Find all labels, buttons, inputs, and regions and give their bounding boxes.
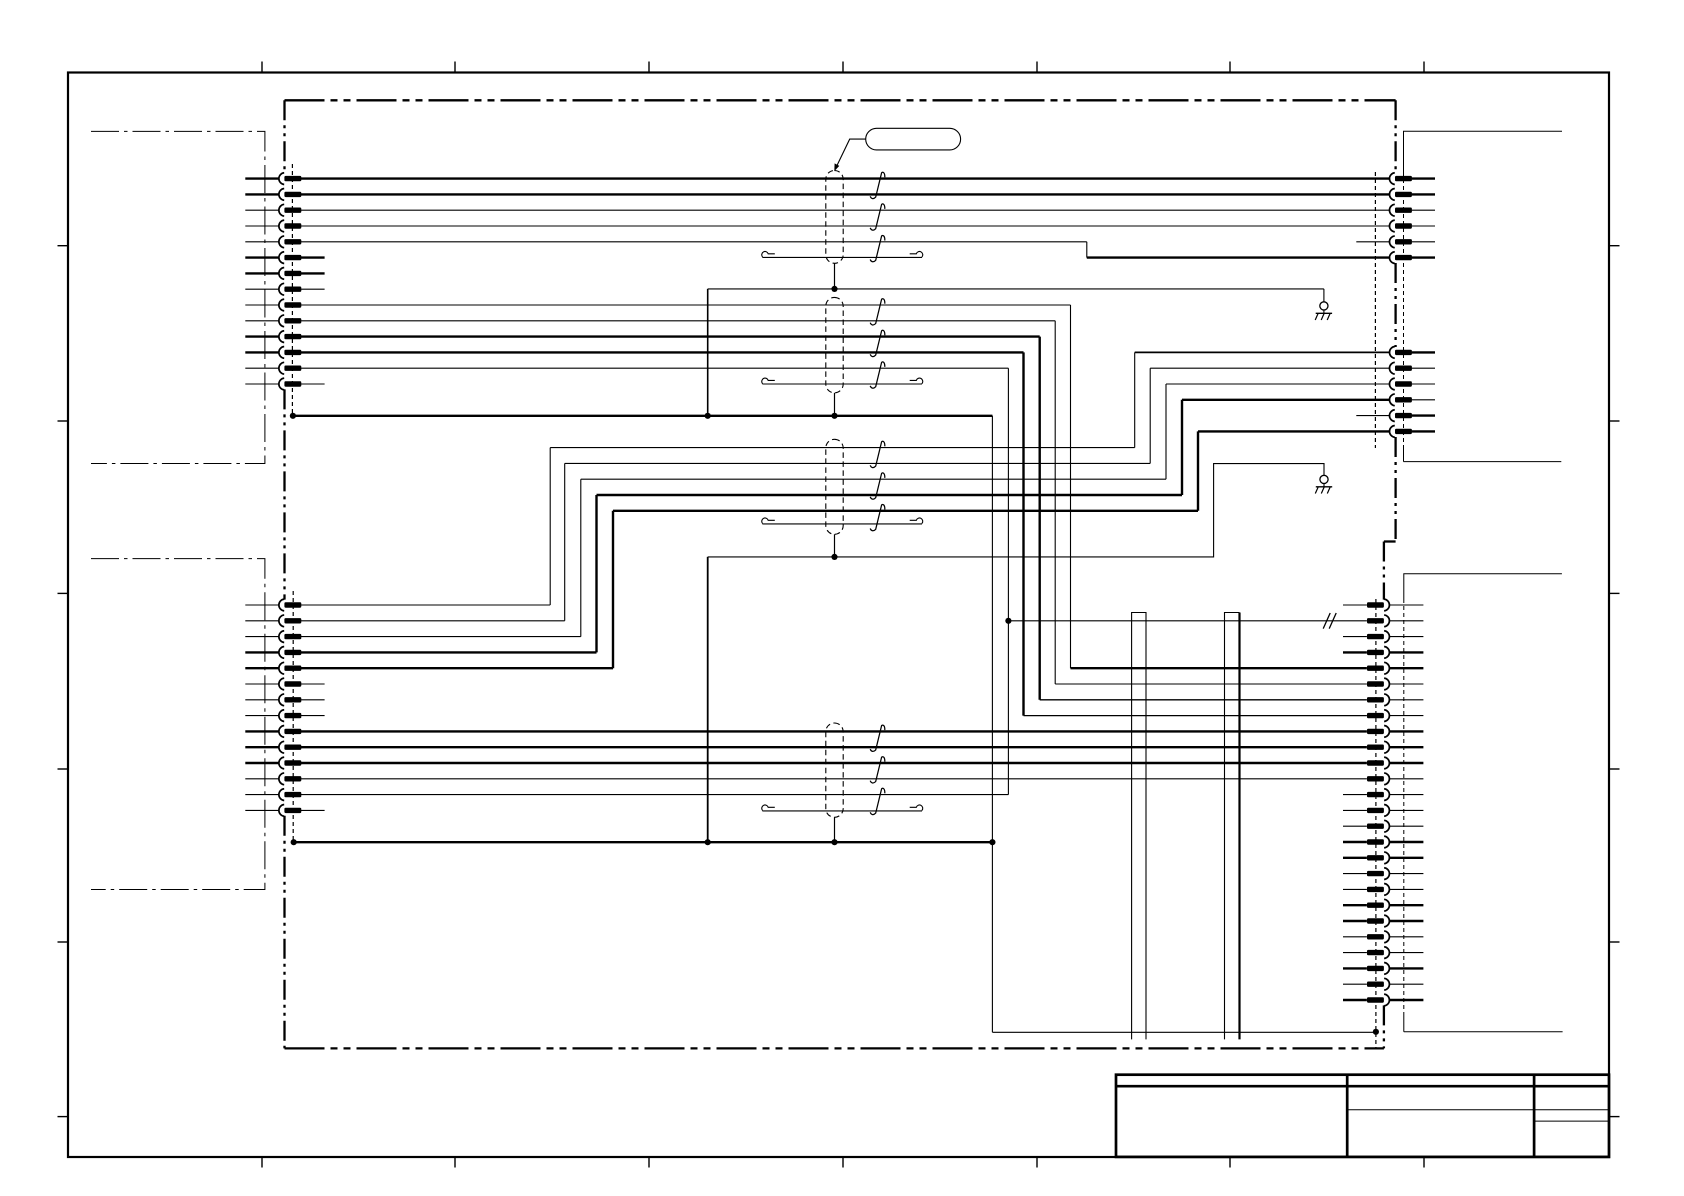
shield W2 drain wire with pigtails xyxy=(762,383,922,385)
cable pair P1 xyxy=(1132,613,1146,1040)
shield bus vertical 707.7 lower segment xyxy=(707,557,709,842)
shield bus wire row 556.9 to ground G2 xyxy=(708,464,1324,557)
wire J1-3 to J3A-3 xyxy=(301,209,1390,211)
double-slash mark on J4-2 wire xyxy=(1323,613,1330,629)
stub J1-14 xyxy=(301,383,325,385)
connector J2 pins xyxy=(279,599,301,816)
junction dot J1 shell xyxy=(290,413,296,419)
shield W3 drain wire with pigtails xyxy=(762,523,922,525)
right unit box 1 left edge dashed through connector xyxy=(1403,172,1405,448)
shield W4 drain wire with pigtails xyxy=(762,810,922,812)
connector J4 pins xyxy=(1367,599,1389,1006)
wire J1-11 down to J4-7 xyxy=(301,335,1040,337)
connector J3B right stubs xyxy=(1412,352,1435,431)
junction dot shield W1 xyxy=(831,286,837,292)
wire J1-5 jog down to J3A-6 xyxy=(301,241,1087,243)
stub J1-8 xyxy=(301,288,325,290)
twisted-pair mark 1 xyxy=(870,172,885,198)
wire J1-2 to J3A-2 xyxy=(301,193,1390,195)
junction dot 707/415 xyxy=(705,413,711,419)
right unit box 1 outline xyxy=(1404,131,1563,172)
stub J2-7 xyxy=(301,699,325,701)
ground symbol G1 xyxy=(1323,301,1325,303)
stub J1-7 xyxy=(301,272,325,274)
wire J2-13 joins riser node xyxy=(301,794,1009,796)
junction dot J2 shell xyxy=(291,839,297,845)
shield bus vertical 992.4 xyxy=(991,416,993,1033)
twisted-pair mark 5 xyxy=(870,330,885,356)
wire J2-5 riser to shielded row 510.8 xyxy=(301,667,613,669)
shield bus wire row 288.9 to ground G1 xyxy=(708,288,1324,290)
left unit box 2 (dash-dot outline) xyxy=(91,559,265,890)
twisted-pair mark 10 xyxy=(870,725,885,751)
connector J3 body dashed line xyxy=(1374,172,1376,448)
cable shield oval W1 (dashed capsule) xyxy=(826,171,843,264)
connector J1 left leads xyxy=(245,179,279,384)
wire riser to J3B-3 xyxy=(1165,384,1167,479)
twisted-pair mark 6 xyxy=(870,362,885,388)
twisted-pair mark 3 xyxy=(870,235,885,261)
wire J1-12 down to J4-8 xyxy=(301,351,1024,353)
wire J1-13 down joins J4-2 node and J2-13 xyxy=(301,367,1009,369)
stub J2-6 xyxy=(301,683,325,685)
shield bus thick row 415.8 from J1 shell xyxy=(293,415,993,417)
stub J1-6 xyxy=(301,256,325,258)
connector J4 right stubs xyxy=(1389,605,1424,1000)
junction dot 707/842 xyxy=(705,839,711,845)
junction dot shield W3 xyxy=(831,554,837,560)
twisted-pair mark 11 xyxy=(870,757,885,783)
cabinet boundary right edge upper segments xyxy=(1394,100,1396,173)
cable shield oval W3 (dashed capsule) xyxy=(826,439,843,534)
connector J4 left stubs xyxy=(1343,605,1367,1000)
shield W2 drain stem xyxy=(834,393,836,416)
wire J1-9 down to J4-5 xyxy=(301,304,1071,306)
twisted-pair mark 2 xyxy=(870,204,885,230)
wire J2-2 riser to shielded row 463.4 xyxy=(301,620,565,622)
wire J2-3 riser to shielded row 479.2 xyxy=(301,636,581,638)
connector J3B pins xyxy=(1389,347,1411,438)
left unit box 1 (dash-dot outline) xyxy=(91,131,265,463)
wire J4-2 row with junction xyxy=(1008,620,1367,622)
twisted-pair mark 12 xyxy=(870,788,885,814)
cabinet boundary right edge jog xyxy=(1384,540,1396,542)
connector J2 body centerline (dashed) xyxy=(292,591,294,842)
junction dot shield W4 xyxy=(831,839,837,845)
shield W4 drain stem xyxy=(834,817,836,842)
connector J3A right stubs xyxy=(1412,179,1435,258)
wire J2-1 riser to shielded row 447.6 xyxy=(301,604,550,606)
cabinet boundary top edge (dash-dot-dot) xyxy=(285,99,1396,101)
twisted-pair mark 4 xyxy=(870,299,885,325)
twisted-pair mark 7 xyxy=(870,441,885,467)
connector J4 body dashed line xyxy=(1375,599,1377,1048)
stub J3B-5 left xyxy=(1356,415,1390,417)
cable shield oval W2 (dashed capsule) xyxy=(826,297,843,392)
connector J3A pins xyxy=(1389,173,1411,264)
shield W1 drain wire with pigtails xyxy=(762,256,922,258)
wire J2-9 to J4-9 xyxy=(301,730,1367,732)
wire J2-4 riser to shielded row 495.0 xyxy=(301,651,597,653)
junction dot J4 shell xyxy=(1373,1029,1379,1035)
connector J1 pins xyxy=(279,173,301,390)
balloon leader line with arrowhead xyxy=(837,139,866,166)
shield bus thick row 842.2 from J2 shell xyxy=(294,841,993,843)
cabinet boundary right edge lower segments xyxy=(1383,542,1385,600)
wire J2-10 to J4-10 xyxy=(301,746,1367,748)
connector J1 body centerline (dashed) xyxy=(291,164,293,416)
shield W1 drain stem xyxy=(834,263,836,289)
shield return row 1032.3 to J4 shell xyxy=(992,1031,1376,1033)
stub J2-14 xyxy=(301,809,325,811)
twisted-pair mark 8 xyxy=(870,473,885,499)
cabinet boundary bottom edge (dash-dot-dot) xyxy=(285,1047,1384,1049)
wire J2-12 to J4-12 xyxy=(301,778,1367,780)
stub J2-8 xyxy=(301,715,325,717)
wire J1-1 to J3A-1 xyxy=(301,177,1390,179)
connector J2 left leads xyxy=(245,605,279,810)
wire riser to J3B-6 xyxy=(1197,431,1199,510)
wire J1-4 to J3A-4 xyxy=(301,225,1390,227)
twisted-pair mark 9 xyxy=(870,504,885,530)
ground symbol G2 xyxy=(1323,474,1325,476)
stub J3A-5 left xyxy=(1356,241,1390,243)
cable shield oval W4 (dashed capsule) xyxy=(826,723,843,817)
cable pair P2 (right leg thick) xyxy=(1225,613,1240,1040)
wire riser to J3B-4 xyxy=(1181,400,1183,495)
right unit box 2 left edge dashed through connector xyxy=(1403,599,1405,1012)
junction dot J4-2 riser xyxy=(1005,618,1011,624)
title block xyxy=(1116,1075,1609,1157)
wire J2-11 to J4-11 xyxy=(301,762,1367,764)
junction dot shield W2 xyxy=(831,413,837,419)
wire J1-10 down to J4-6 xyxy=(301,320,1055,322)
shield bus vertical 707.7 upper segment xyxy=(707,289,709,416)
label balloon (stadium callout) xyxy=(866,128,961,150)
wire riser to J3B-2 xyxy=(1149,368,1151,463)
right unit box 2 outline xyxy=(1404,574,1562,599)
shield W3 drain stem xyxy=(834,534,836,557)
wire riser to J3B-1 xyxy=(1134,352,1136,447)
cabinet boundary left edge segments xyxy=(283,100,285,173)
junction dot 992/842 xyxy=(989,839,995,845)
